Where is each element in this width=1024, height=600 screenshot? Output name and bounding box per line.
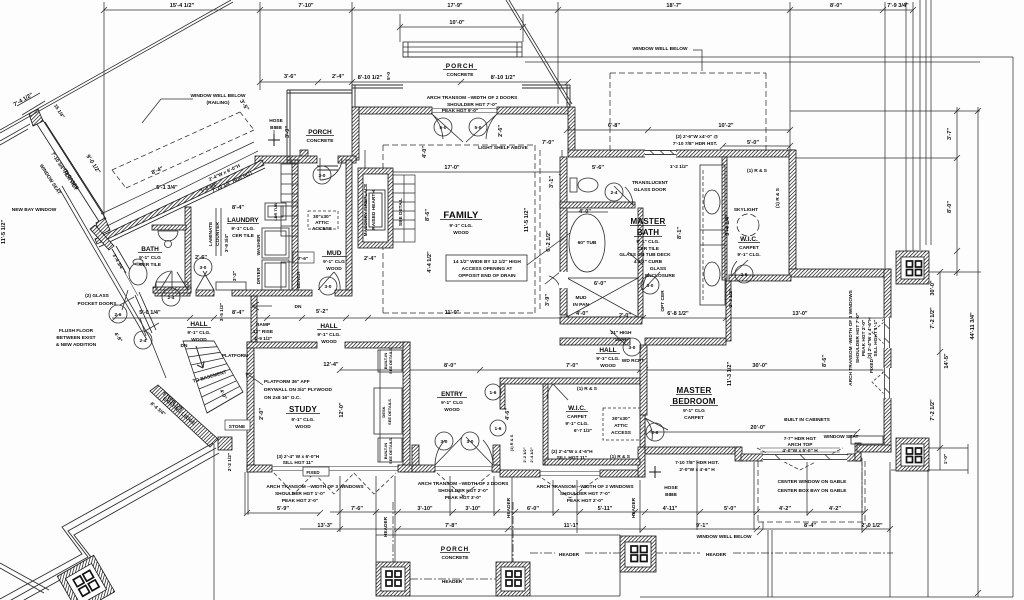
svg-text:ARCH TRANSOM --WIDTH OF 3 WIND: ARCH TRANSOM --WIDTH OF 3 WINDOWS	[266, 484, 364, 490]
svg-text:(3) 2'-4"W x 4'-6"H: (3) 2'-4"W x 4'-6"H	[867, 317, 873, 359]
svg-text:9'-1" CLG.: 9'-1" CLG.	[291, 417, 314, 423]
y318 ticks	[112, 315, 888, 321]
svg-text:DESK: DESK	[381, 406, 386, 417]
svg-text:4'-0": 4'-0"	[579, 209, 591, 215]
svg-text:8'-1": 8'-1"	[677, 227, 683, 239]
svg-text:STUDY: STUDY	[289, 405, 318, 414]
dashed elements	[112, 50, 893, 596]
tub labels	[578, 209, 676, 279]
laundry tub	[265, 203, 286, 220]
svg-text:3-0: 3-0	[200, 265, 207, 271]
window well railing leader	[142, 99, 193, 123]
svg-text:DRYWALL ON 3/4" PLYWOOD: DRYWALL ON 3/4" PLYWOOD	[264, 387, 332, 393]
extension line x885	[884, 2, 886, 268]
svg-text:PORCH: PORCH	[446, 63, 474, 70]
svg-text:7'-0": 7'-0"	[542, 140, 554, 146]
svg-text:5'-6": 5'-6"	[592, 165, 604, 171]
svg-text:9'-1" CLG.: 9'-1" CLG.	[231, 226, 254, 232]
svg-text:CONCRETE: CONCRETE	[307, 138, 335, 144]
top porch label	[307, 63, 475, 144]
svg-text:SHOULDER HGT 7'-0": SHOULDER HGT 7'-0"	[560, 491, 610, 497]
light shelf dashed rect in family	[383, 145, 535, 313]
svg-text:HALL: HALL	[320, 323, 337, 330]
right vertical dim line x957	[954, 107, 960, 276]
svg-text:GLASS: GLASS	[650, 266, 667, 272]
window white gaps in walls	[559, 150, 892, 463]
svg-text:PEAK HGT 2'-0": PEAK HGT 2'-0"	[861, 320, 867, 356]
svg-text:FIXED: FIXED	[869, 358, 875, 373]
svg-text:8'-4": 8'-4"	[232, 205, 244, 211]
svg-text:7'-2 1/2": 7'-2 1/2"	[930, 399, 936, 421]
extension line x790	[789, 2, 791, 150]
svg-text:NEW BAY WINDOW: NEW BAY WINDOW	[12, 207, 57, 213]
top dim ticks	[101, 7, 916, 13]
hall3 label	[316, 309, 341, 368]
pocket door wall lower	[135, 292, 156, 333]
svg-text:& NEW ADDITION: & NEW ADDITION	[56, 342, 97, 348]
locker boxes hall	[156, 282, 188, 290]
family dims rotated	[364, 208, 552, 316]
svg-text:MASONRY FIREPLACE: MASONRY FIREPLACE	[363, 183, 369, 237]
svg-text:ARCH TOP: ARCH TOP	[788, 442, 814, 448]
svg-text:5'-2": 5'-2"	[316, 309, 328, 315]
bedroom top windows sills	[646, 151, 672, 155]
attic access dashed box (mud)	[308, 211, 338, 229]
pillar mid right	[896, 438, 929, 471]
svg-text:17'-9": 17'-9"	[447, 3, 463, 9]
svg-text:SEE DETAILS: SEE DETAILS	[388, 348, 393, 374]
svg-text:WINDOW SEAT: WINDOW SEAT	[824, 434, 859, 440]
pillar bottom far left (rotated)	[57, 555, 114, 600]
skylight dashed circle	[737, 214, 759, 236]
platform note leader	[246, 373, 263, 385]
svg-text:CONCRETE: CONCRETE	[442, 555, 470, 561]
svg-text:BIBB: BIBB	[270, 125, 282, 131]
hose bibb label top	[269, 118, 283, 131]
svg-text:MASTER: MASTER	[677, 386, 712, 395]
wic2 east wall	[640, 384, 645, 447]
wic2 label	[565, 386, 597, 434]
svg-text:3'-9": 3'-9"	[545, 294, 551, 306]
platform west wall	[251, 296, 257, 342]
svg-text:W.I.C.: W.I.C.	[568, 405, 586, 412]
bottom dim line y529	[300, 526, 893, 532]
extension line x260	[259, 2, 261, 90]
extension line x352	[351, 2, 353, 104]
second diagonal pair lower left	[0, 124, 30, 141]
step wall to bedroom bay y269	[789, 269, 891, 277]
hall2 labels	[444, 347, 644, 369]
svg-text:11'-1": 11'-1"	[564, 523, 579, 529]
svg-text:BUILT IN CABINETS: BUILT IN CABINETS	[784, 417, 831, 423]
svg-text:COUNTER: COUNTER	[215, 222, 221, 246]
bedroom west wall	[640, 345, 647, 415]
svg-text:SILL HGHT 1'-1": SILL HGHT 1'-1"	[873, 320, 879, 357]
13'-0" dim line y318 handled by long line, ticks above	[725, 280, 727, 318]
attic access wic2	[611, 416, 632, 436]
window sill lines across openings	[272, 109, 672, 477]
study bottom wall left seg	[247, 465, 272, 472]
master bedroom right wall	[884, 269, 891, 452]
attic access mud	[312, 214, 333, 232]
svg-text:WOOD: WOOD	[295, 424, 311, 430]
pocket door leader lines	[122, 290, 146, 336]
window well railing dashed parallelogram	[112, 112, 254, 188]
shower door	[628, 252, 643, 265]
svg-text:4'-2": 4'-2"	[779, 506, 791, 512]
svg-text:2-4: 2-4	[168, 295, 175, 301]
svg-text:SHOULDER HGT 2'-0": SHOULDER HGT 2'-0"	[438, 488, 488, 494]
existing porch zigzag outline	[0, 443, 219, 600]
svg-text:5'-1 3/4": 5'-1 3/4"	[156, 185, 178, 191]
pillar bottom porch left	[376, 562, 410, 596]
svg-text:6'-8": 6'-8"	[608, 123, 620, 129]
svg-text:(3) 2'-4" W x 6'-0"H: (3) 2'-4" W x 6'-0"H	[277, 454, 320, 460]
built-in labels study	[381, 348, 393, 464]
extension line x920	[919, 0, 921, 250]
pillar top right	[896, 251, 929, 284]
svg-text:SEE DETAIL: SEE DETAIL	[398, 198, 404, 226]
svg-text:CONCRETE: CONCRETE	[447, 72, 475, 78]
svg-text:GLASS ON TUB DECK: GLASS ON TUB DECK	[619, 252, 671, 258]
svg-text:3'-5 1/2": 3'-5 1/2"	[219, 303, 225, 321]
bedroom door	[645, 418, 668, 440]
wing diagonal dims	[151, 163, 254, 195]
svg-text:2'-6": 2'-6"	[195, 255, 207, 261]
svg-text:14'-5": 14'-5"	[944, 353, 950, 369]
svg-text:60" TUB: 60" TUB	[578, 240, 597, 246]
svg-text:7'-6": 7'-6"	[351, 506, 363, 512]
laundry label	[227, 217, 259, 239]
bedroom hall door	[610, 330, 626, 345]
mirror dashed line in master vanity	[702, 170, 704, 300]
mud bench	[281, 262, 292, 290]
svg-text:ACCESS OPENING AT: ACCESS OPENING AT	[462, 266, 513, 272]
master bedroom bottom wall seg2	[741, 454, 861, 461]
svg-text:7'-8": 7'-8"	[445, 523, 457, 529]
pocket door wall upper	[112, 246, 130, 273]
porch front dim line y82	[257, 79, 571, 85]
family west wall	[352, 107, 359, 160]
svg-text:21" HIGH: 21" HIGH	[611, 330, 632, 336]
flush floor note	[56, 328, 123, 348]
bath wing pedestal sink	[158, 231, 178, 241]
access opening note box	[446, 255, 527, 281]
wing diagonal dim line	[101, 142, 258, 226]
svg-text:5-0: 5-0	[475, 125, 482, 131]
family NE corner vertical wall	[568, 107, 575, 153]
header dashdot right porch	[530, 552, 893, 554]
svg-text:8'-0": 8'-0"	[830, 3, 842, 9]
svg-text:6'-7 1/2": 6'-7 1/2"	[574, 428, 592, 434]
bedroom right wall window dashed arcs	[872, 322, 884, 394]
svg-text:PLATFORM 36" AFF: PLATFORM 36" AFF	[264, 379, 310, 385]
mud-family divider wall	[346, 160, 352, 292]
laundry counter	[216, 208, 221, 256]
svg-text:MUD: MUD	[327, 250, 342, 257]
svg-text:9'-1" CLG: 9'-1" CLG	[683, 408, 705, 414]
svg-text:2'-0"W x 4'-6" H: 2'-0"W x 4'-6" H	[679, 467, 715, 473]
plumbing fixtures	[129, 151, 883, 462]
bath wing toilet	[129, 263, 147, 285]
porch pillar centerline left	[392, 502, 394, 596]
porch pillar centerline mid	[512, 502, 514, 596]
svg-text:3'-10": 3'-10"	[465, 506, 481, 512]
extension line x104	[103, 2, 105, 232]
top dimension labels	[170, 3, 909, 26]
svg-text:HEADER: HEADER	[559, 552, 580, 558]
underlines for room names	[138, 70, 760, 553]
svg-text:3-0: 3-0	[325, 284, 332, 290]
svg-text:(1) R & S: (1) R & S	[775, 187, 781, 208]
master bay window gap	[645, 150, 676, 159]
svg-text:PORCH: PORCH	[441, 546, 469, 553]
window pair dim y146	[720, 143, 793, 149]
stone ledge hatched wall	[150, 385, 218, 447]
svg-text:8'-10 1/2": 8'-10 1/2"	[358, 75, 383, 81]
laundry-mud divider wall	[292, 160, 298, 292]
svg-text:HALL: HALL	[190, 321, 207, 328]
header rotated labels	[383, 497, 637, 537]
bay window band outer	[33, 114, 106, 223]
svg-text:ON 2x8 16" O.C.: ON 2x8 16" O.C.	[264, 395, 301, 401]
svg-text:4'-0"W x 5'-0" H: 4'-0"W x 5'-0" H	[782, 448, 818, 454]
svg-text:ARCH TRANSOM -WIDTH OF 3 WINDO: ARCH TRANSOM -WIDTH OF 3 WINDOWS	[848, 289, 854, 385]
svg-text:SEE DETAILS: SEE DETAILS	[388, 438, 393, 464]
center window dashed gable lines	[757, 448, 843, 470]
svg-text:SEE DETAILS: SEE DETAILS	[387, 399, 392, 425]
south wall right of entry	[500, 470, 540, 477]
svg-text:3-0: 3-0	[441, 439, 448, 445]
svg-text:SHOULDER HGT 7'-0": SHOULDER HGT 7'-0"	[447, 102, 497, 108]
master bath room label	[631, 217, 666, 252]
svg-text:12'-4": 12'-4"	[323, 362, 339, 368]
svg-text:4'-2": 4'-2"	[829, 506, 841, 512]
svg-text:SKYLIGHT: SKYLIGHT	[734, 207, 758, 213]
svg-text:3-0: 3-0	[467, 439, 474, 445]
mud top wall right of door	[338, 156, 356, 163]
svg-text:8'-6": 8'-6"	[822, 355, 828, 367]
bay window end cap bottom	[96, 218, 110, 235]
svg-text:4'-9 1/2": 4'-9 1/2"	[254, 336, 272, 342]
svg-text:8'-6": 8'-6"	[425, 209, 431, 221]
right window transom dashed chevrons	[542, 478, 598, 498]
mud-hall door	[318, 272, 340, 290]
entry door transom dashed chevrons	[437, 473, 491, 496]
svg-text:CARPET: CARPET	[739, 245, 759, 251]
svg-text:PEAK HGT 2'-0": PEAK HGT 2'-0"	[567, 498, 603, 504]
hall double doors to laundry-bath	[160, 271, 214, 290]
vanity master	[700, 165, 725, 305]
svg-text:5'-11": 5'-11"	[598, 506, 613, 512]
svg-text:9'-1": 9'-1"	[696, 523, 708, 529]
svg-text:HEADER: HEADER	[506, 497, 512, 518]
left porch slab outline	[287, 90, 352, 163]
svg-text:(1) R & S: (1) R & S	[509, 434, 514, 451]
svg-text:8'-10 1/2": 8'-10 1/2"	[491, 75, 516, 81]
bay window rotated labels	[13, 92, 250, 196]
door tag circles	[109, 118, 753, 450]
entry label	[441, 391, 534, 463]
bay window dim line	[17, 93, 45, 115]
entry bay east wall	[493, 445, 500, 472]
wic2 bottom wall	[545, 459, 640, 465]
window well leader (top)	[693, 50, 702, 71]
svg-text:4'-0": 4'-0"	[576, 311, 588, 317]
bottom porch slab outline	[376, 535, 620, 596]
svg-text:GLASS DOOR: GLASS DOOR	[634, 187, 667, 193]
porch edge below study	[245, 472, 248, 515]
access note leader	[527, 233, 570, 265]
svg-text:CENTER WINDOW ON GABLE: CENTER WINDOW ON GABLE	[778, 479, 848, 485]
svg-text:7'-10": 7'-10"	[298, 3, 314, 9]
svg-text:30"x30": 30"x30"	[612, 416, 630, 422]
pillar bottom right	[620, 536, 656, 572]
svg-text:WINDOW WELL BELOW: WINDOW WELL BELOW	[190, 93, 246, 99]
window seat center dashdot	[861, 458, 863, 520]
svg-text:2'-0": 2'-0"	[259, 408, 265, 420]
bottom dim line y512	[330, 511, 865, 513]
svg-text:13'-3": 13'-3"	[317, 523, 333, 529]
svg-text:11'-3 1/2": 11'-3 1/2"	[727, 362, 733, 387]
svg-text:2'-2 1/2": 2'-2 1/2"	[227, 453, 233, 471]
svg-text:TRANSLUCENT: TRANSLUCENT	[632, 180, 668, 186]
svg-text:1'-0": 1'-0"	[943, 454, 949, 464]
family header dims	[444, 123, 759, 188]
svg-text:PLATFORM: PLATFORM	[222, 353, 248, 359]
svg-text:2'-0 1/2": 2'-0 1/2"	[861, 523, 883, 529]
diagonal continues to ledge	[150, 338, 166, 378]
misc dim lines and leaders	[17, 79, 793, 600]
svg-text:9'-1" CLG.: 9'-1" CLG.	[317, 332, 340, 338]
dryer	[262, 260, 289, 290]
exterior and interior walls (hatched)	[152, 107, 891, 477]
svg-text:HEADER: HEADER	[442, 579, 463, 585]
extension x645 bedroom	[644, 370, 646, 450]
hose bibb symbol bottom	[649, 466, 661, 478]
svg-text:15'-4 1/2": 15'-4 1/2"	[170, 3, 195, 9]
svg-text:POCKET DOORS: POCKET DOORS	[78, 301, 118, 307]
master bath rotated dims	[670, 164, 734, 307]
svg-text:30"x30": 30"x30"	[313, 214, 331, 220]
svg-text:9'-1" CLG: 9'-1" CLG	[323, 259, 345, 265]
svg-text:2-6: 2-6	[115, 312, 122, 318]
7-6 boxed dim	[293, 252, 314, 289]
bottom sheet line y597	[640, 596, 1013, 598]
svg-text:7'-10 7/8" HDR HST.: 7'-10 7/8" HDR HST.	[673, 141, 717, 147]
bedroom south window gap	[763, 454, 847, 463]
window glazing marks	[645, 151, 890, 460]
porch dims	[284, 72, 516, 158]
svg-text:BENCH: BENCH	[296, 271, 302, 289]
bath south wall	[153, 287, 191, 293]
family room top wall left segment	[352, 107, 432, 114]
svg-text:RAMP: RAMP	[256, 322, 271, 328]
y512 ticks	[337, 509, 868, 515]
svg-text:9'-1" CLG: 9'-1" CLG	[441, 400, 463, 406]
svg-text:WOOD: WOOD	[326, 266, 342, 272]
bottom porch label	[441, 546, 469, 561]
svg-text:2'-6": 2'-6"	[498, 125, 504, 137]
svg-text:BATH: BATH	[141, 246, 159, 253]
built-in cabinets bedroom wall	[760, 448, 840, 452]
bedroom south window note	[675, 460, 719, 473]
svg-text:WOOD: WOOD	[453, 230, 469, 236]
svg-text:PEAK HGT 9'-0": PEAK HGT 9'-0"	[442, 108, 478, 114]
hose bibb bottom	[664, 485, 678, 498]
svg-text:LAMINATE: LAMINATE	[208, 221, 214, 246]
bath north shelf wall	[152, 225, 186, 230]
family door transom note	[427, 95, 518, 114]
svg-text:3'-2": 3'-2"	[232, 271, 238, 281]
study porch dim line y513 5'-9"	[244, 510, 323, 516]
stone label box	[225, 420, 250, 430]
ramp arrow	[252, 302, 272, 310]
svg-text:8'-4": 8'-4"	[232, 310, 244, 316]
family room top wall right segment	[497, 107, 571, 114]
master bedroom bottom wall seg1	[645, 447, 741, 454]
window well bottom leader	[757, 522, 763, 535]
svg-text:3'-9 3/4": 3'-9 3/4"	[224, 234, 230, 252]
master bath door	[643, 272, 660, 290]
top porch steps	[403, 42, 522, 57]
window head dim line y130	[564, 127, 793, 133]
wic west wall	[722, 157, 727, 280]
svg-text:7-10 7/8" HDR HGT.: 7-10 7/8" HDR HGT.	[675, 460, 719, 466]
svg-text:4 1/2" CURB: 4 1/2" CURB	[634, 259, 663, 265]
pillar bottom porch mid	[496, 562, 530, 596]
fixed window label box	[303, 467, 329, 476]
fireplace labels	[363, 183, 404, 237]
porch floor edge at mud door	[317, 166, 338, 170]
svg-text:12'-0": 12'-0"	[339, 402, 345, 418]
wing NE diagonal wall (bath/laundry)	[95, 160, 264, 244]
wic2 door	[547, 384, 568, 400]
study bottom wall right seg	[398, 465, 419, 472]
svg-text:RAISED HEARTH: RAISED HEARTH	[371, 190, 377, 230]
svg-text:ENCLOSURE: ENCLOSURE	[645, 273, 676, 279]
svg-text:BIBB: BIBB	[665, 492, 677, 498]
master suite top wall	[568, 150, 794, 157]
study SW corner block	[218, 437, 232, 450]
svg-text:6'-8 1/2": 6'-8 1/2"	[667, 311, 689, 317]
master bedroom dim line 30'-0" y370	[642, 367, 888, 373]
bath SW cap wall	[90, 225, 114, 250]
svg-text:2'-4 1/2": 2'-4 1/2"	[529, 447, 534, 462]
pocket door dim ext	[120, 297, 159, 331]
extension line x906	[905, 2, 907, 258]
svg-text:WINDOW WELL BELOW: WINDOW WELL BELOW	[696, 534, 752, 540]
svg-text:3'-9": 3'-9"	[285, 126, 291, 138]
svg-text:STONE: STONE	[229, 424, 246, 430]
svg-text:ACCESS: ACCESS	[312, 226, 333, 232]
right horizontal extension y272	[929, 271, 981, 273]
entry/closet top wall	[500, 378, 645, 384]
svg-text:SILL HGT 11": SILL HGT 11"	[557, 455, 587, 461]
svg-text:2'-0": 2'-0"	[619, 313, 631, 319]
svg-text:14 1/2" WIDE BY 12 1/2" HIGH: 14 1/2" WIDE BY 12 1/2" HIGH	[453, 259, 521, 265]
porch dimension line 10'-0"	[397, 24, 526, 30]
bath label	[111, 246, 162, 272]
vanity divider wall	[638, 208, 643, 318]
window well below rect (bottom right)	[758, 461, 865, 522]
svg-text:7-7" HDR HGT: 7-7" HDR HGT	[784, 436, 816, 442]
entry bay sill	[435, 467, 492, 471]
pantry shelves left strip	[281, 164, 298, 202]
hall top wall (under lockers)	[155, 290, 190, 296]
svg-text:9'-1" CLG.: 9'-1" CLG.	[449, 223, 472, 229]
long existing-house diagonal top left	[0, 0, 233, 378]
